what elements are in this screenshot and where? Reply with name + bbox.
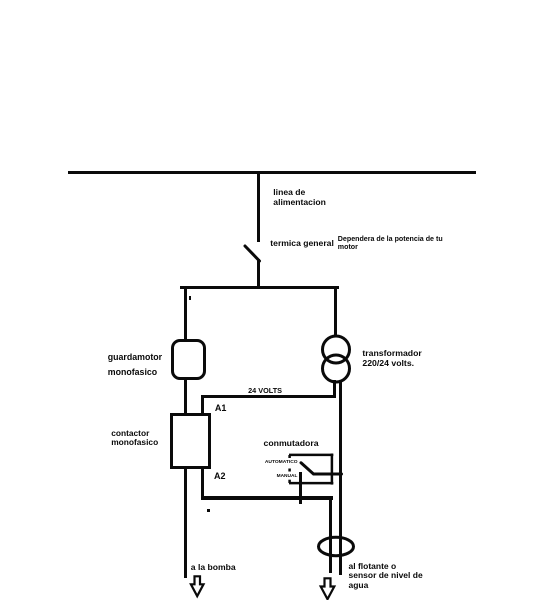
label "AUTOMATICO" — [265, 460, 298, 465]
wire: guardamotor to contactor — [184, 379, 187, 414]
label "MANUAL" — [277, 474, 298, 479]
label "24 VOLTS" — [248, 386, 282, 395]
label "al flotante o sensor de nivel de agua" — [349, 562, 423, 591]
wire: A2 coil pin down to return bus — [201, 466, 204, 499]
wire: transformer secondary left lead to 24V line — [333, 380, 336, 396]
wire: supply line (linea de alimentacion) — [68, 171, 476, 174]
label "conmutadora" — [264, 438, 319, 448]
wire: motor output to pump — [184, 466, 187, 578]
pin label A2 — [214, 471, 226, 481]
wire: transformer secondary right lead down — [339, 380, 342, 575]
wire: breaker to distribution bus — [257, 259, 260, 288]
label "contactor monofasico" — [111, 428, 149, 438]
wire: manual contact down to return bus — [299, 472, 302, 504]
wire: left branch drop to guardamotor — [184, 288, 187, 341]
label "guardamotor monofasico" — [108, 352, 162, 362]
wire: drop from supply line to breaker — [257, 172, 260, 242]
wire: 24 volts control line — [201, 395, 336, 398]
label "termica general" — [270, 238, 334, 248]
wire: A1 coil pin — [201, 395, 204, 414]
guardamotor GM (rounded rectangle) — [171, 339, 206, 380]
label "a la bomba" — [191, 562, 236, 572]
note "Dependera de la potencia de tu motor" — [338, 235, 443, 252]
pin label A1 — [215, 403, 227, 413]
label "transformador 220/24 volts." — [362, 349, 421, 368]
contactor K1 (rectangle coil/body) — [170, 413, 211, 469]
wire: horizontal distribution bus — [180, 286, 339, 289]
wire: return bus drop to float sensor — [329, 496, 332, 573]
wire: bottom return bus — [201, 496, 333, 500]
label "linea de alimentacion" — [273, 187, 326, 207]
wire: right branch drop to transformer — [334, 288, 337, 336]
